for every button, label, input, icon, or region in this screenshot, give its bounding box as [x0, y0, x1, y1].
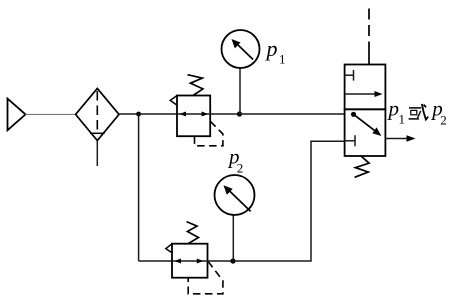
- spring of V1: [188, 75, 203, 96]
- node C (junction dot, gauge P2 tap): [230, 258, 235, 263]
- directional valve U1 body (two positions): [345, 65, 386, 157]
- pressure regulator V2: [172, 244, 208, 278]
- return spring below valve: [355, 156, 370, 177]
- svg-text:2: 2: [440, 112, 447, 127]
- svg-text:p: p: [387, 96, 400, 120]
- svg-text:1: 1: [279, 52, 286, 67]
- wire: node C to valve lower port: [233, 141, 345, 261]
- spring of V2: [187, 222, 199, 244]
- valve top position: flow arrow: [345, 91, 383, 97]
- pressure regulator V1: [177, 96, 210, 137]
- adjustment arrowhead of V2: [166, 244, 172, 252]
- valve bottom position: diagonal flow arrow: [354, 114, 382, 136]
- wire: to regulator V2: [139, 260, 172, 262]
- output wire with arrow: [385, 135, 415, 142]
- character "huo" (or) hand-drawn: [409, 104, 429, 120]
- node A (junction dot): [136, 112, 141, 117]
- wire: source to filter: [26, 113, 76, 115]
- filter F1 (diamond with water separator): [76, 88, 119, 140]
- wire: regulator V2 to node C: [208, 260, 234, 262]
- pilot line (dashed) above valve: [368, 9, 370, 44]
- valve top position: blocked port: [345, 70, 354, 81]
- pressure gauge P2: [215, 175, 255, 215]
- valve bottom position: blocked port: [345, 135, 355, 146]
- label p1 or p2 (output): [387, 96, 447, 127]
- pilot line (dashed) of V1: [195, 121, 223, 146]
- wire: regulator V1 to node B: [210, 113, 239, 115]
- node B (junction dot, gauge P1 tap): [237, 111, 242, 116]
- adjustment arrowhead of V1: [170, 96, 176, 105]
- svg-text:p: p: [265, 36, 278, 61]
- pressure gauge P1: [222, 30, 260, 68]
- valve bottom position: inlet dot: [351, 112, 356, 117]
- svg-text:1: 1: [399, 112, 406, 127]
- svg-text:2: 2: [237, 161, 244, 176]
- pilot line (dashed) of V2: [188, 261, 223, 294]
- gauge P2 stem: [232, 215, 234, 261]
- gauge P1 stem: [239, 68, 241, 115]
- wire: node A to regulator V1: [139, 113, 177, 115]
- branch wire: node A down: [138, 114, 140, 261]
- wire: filter to node A: [119, 113, 139, 115]
- drain line below filter: [96, 141, 98, 166]
- source triangle (compressed air supply): [8, 99, 26, 131]
- wire: node B to valve: [240, 113, 345, 115]
